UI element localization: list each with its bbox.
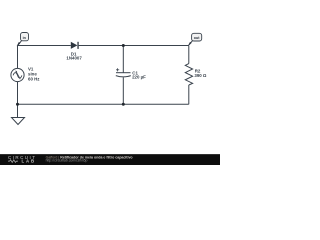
svg-text:1N4007: 1N4007	[66, 56, 82, 61]
svg-text:LAB: LAB	[22, 159, 37, 164]
svg-text:http://circuitlab.com/c8hn5p: http://circuitlab.com/c8hn5p	[46, 159, 88, 163]
svg-text:out: out	[194, 36, 201, 40]
svg-text:390 Ω: 390 Ω	[194, 73, 207, 78]
svg-text:220 µF: 220 µF	[132, 74, 146, 79]
svg-text:60 Hz: 60 Hz	[28, 77, 40, 82]
